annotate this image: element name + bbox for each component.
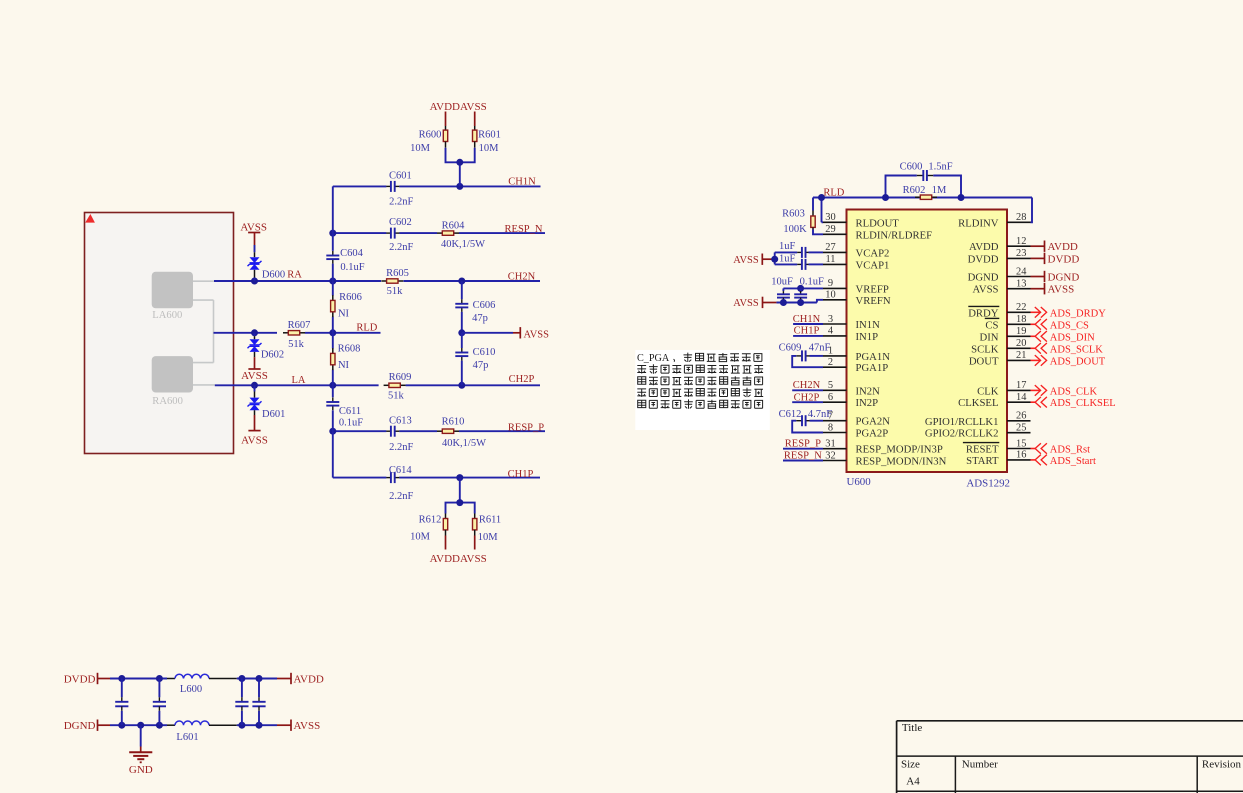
wire net RESP_N <box>333 232 387 234</box>
power lead AVSS bottom <box>474 536 476 550</box>
svg-text:GPIO1/RCLLK1: GPIO1/RCLLK1 <box>925 416 999 428</box>
svg-text:C600: C600 <box>900 161 923 172</box>
junction dvdd-c2 <box>156 675 163 682</box>
U600 pin 6 IN2P <box>823 392 878 409</box>
svg-text:23: 23 <box>1016 248 1026 259</box>
junction vref-c1 bot <box>780 299 787 306</box>
svg-text:1uF: 1uF <box>779 241 796 252</box>
svg-text:ADS_Rst: ADS_Rst <box>1050 445 1090 456</box>
wire net RESP_P <box>333 430 387 432</box>
svg-text:6: 6 <box>828 392 833 403</box>
junction LA-bus <box>329 382 336 389</box>
svg-text:0.1uF: 0.1uF <box>340 262 364 273</box>
wire RA600 pin 2 <box>193 384 215 386</box>
svg-text:PGA1N: PGA1N <box>856 351 891 363</box>
wire D600 top <box>254 245 256 252</box>
svg-text:RLD: RLD <box>823 187 844 198</box>
diode D602 <box>254 333 256 336</box>
resistor R600 <box>445 126 447 130</box>
svg-text:CH2P: CH2P <box>509 374 535 385</box>
junction R600-R601 <box>456 159 463 166</box>
U600 pin 12 AVDD <box>969 236 1031 253</box>
wire CH2N at IC <box>792 389 823 391</box>
junction CH2P-C610 <box>458 382 465 389</box>
wire C612 to pins <box>810 420 824 422</box>
svg-text:DGND: DGND <box>1048 272 1080 284</box>
power lead AVSS filter <box>277 724 291 726</box>
svg-text:AVSS: AVSS <box>524 329 550 340</box>
svg-text:C610: C610 <box>473 347 496 358</box>
svg-text:VREFP: VREFP <box>856 283 889 295</box>
svg-text:DGND: DGND <box>968 272 999 284</box>
junction avdd-c4 <box>256 675 263 682</box>
svg-text:1.5nF: 1.5nF <box>928 161 952 172</box>
junction RLD-C600-left <box>882 194 889 201</box>
title block frame <box>897 721 1243 793</box>
power port AVSS below D602 <box>248 368 260 370</box>
capacitor C-vref 0.1uF <box>800 291 802 294</box>
U600 pin 14 CLKSEL <box>958 392 1030 409</box>
U600 pin 17 CLK <box>977 380 1030 397</box>
svg-text:R612: R612 <box>419 515 442 526</box>
electrode pad RA600 <box>152 356 193 392</box>
diode D600 <box>254 252 256 257</box>
svg-text:D600: D600 <box>262 270 285 281</box>
svg-text:C614: C614 <box>389 465 413 476</box>
svg-text:1uF: 1uF <box>779 254 796 265</box>
svg-text:C609: C609 <box>779 343 802 354</box>
svg-text:A4: A4 <box>906 776 920 788</box>
resistor R604 <box>437 232 442 234</box>
wire GND stem <box>140 725 142 746</box>
capacitor C606 <box>461 299 463 304</box>
resistor R606 <box>332 295 334 300</box>
power port DVDD pin side <box>1031 253 1080 266</box>
wire R600/R601 join <box>446 148 475 163</box>
svg-text:VCAP1: VCAP1 <box>856 259 890 271</box>
svg-text:2: 2 <box>828 357 833 368</box>
diode D601 <box>254 385 256 391</box>
svg-text:C606: C606 <box>473 300 496 311</box>
svg-text:AVSS: AVSS <box>294 720 321 732</box>
svg-text:RESP_P: RESP_P <box>785 439 821 450</box>
resistor R607 <box>283 332 288 334</box>
junction RA-bus <box>329 278 336 285</box>
svg-text:C612: C612 <box>779 409 802 420</box>
junction RESP_N-bus <box>329 230 336 237</box>
svg-text:RA600: RA600 <box>152 396 183 407</box>
svg-text:ADS1292: ADS1292 <box>966 478 1010 490</box>
power port AVSS below D601 <box>248 430 260 432</box>
svg-text:ADS_CLK: ADS_CLK <box>1050 386 1098 397</box>
svg-text:13: 13 <box>1016 279 1026 290</box>
wire C609 to pins <box>810 355 824 357</box>
no-ERC marker triangle <box>85 214 95 223</box>
svg-text:DIN: DIN <box>980 331 999 343</box>
svg-text:IN2N: IN2N <box>856 385 881 397</box>
svg-text:AVSS: AVSS <box>460 553 487 565</box>
svg-text:1M: 1M <box>932 185 947 196</box>
svg-text:AVSS: AVSS <box>973 284 999 296</box>
inductor L601 <box>175 721 209 725</box>
U600 pin 27 VCAP2 <box>823 242 889 259</box>
inductor L600 <box>175 674 209 678</box>
wire pin28 drop <box>1031 198 1033 223</box>
U600 pin 4 IN1P <box>823 326 878 343</box>
wire net CH1P <box>333 477 387 479</box>
U600 pin 15 RESET <box>963 438 1031 455</box>
svg-text:SCLK: SCLK <box>971 343 999 355</box>
resistor R605 <box>381 280 386 282</box>
junction RLD-pin30 <box>818 194 825 201</box>
note text box C_PGA placement requirement <box>635 350 770 430</box>
wire CH2N to C606 <box>461 281 463 299</box>
power port AVSS pin side <box>1031 283 1075 296</box>
wire net LA <box>215 384 379 386</box>
wire C600 loop <box>886 176 917 198</box>
svg-text:0.1uF: 0.1uF <box>800 276 824 287</box>
junction LA-D601 <box>251 382 258 389</box>
svg-text:IN2P: IN2P <box>856 397 879 409</box>
svg-text:21: 21 <box>1016 350 1026 361</box>
wire bus vertical <box>332 186 334 251</box>
junction dgnd-c2 <box>156 722 163 729</box>
svg-text:20: 20 <box>1016 338 1026 349</box>
svg-text:START: START <box>966 455 999 467</box>
junction RLD-C600-right <box>958 194 965 201</box>
capacitor C609 <box>796 355 802 357</box>
capacitor C612 <box>796 420 802 422</box>
svg-text:10: 10 <box>825 290 835 301</box>
capacitor filter C3 <box>235 679 248 726</box>
svg-text:ADS_DOUT: ADS_DOUT <box>1050 356 1106 367</box>
capacitor C614 <box>386 477 391 479</box>
svg-text:RA: RA <box>287 270 302 281</box>
junction avdd-c3 <box>238 675 245 682</box>
svg-text:CLKSEL: CLKSEL <box>958 397 998 409</box>
svg-text:19: 19 <box>1016 326 1026 337</box>
sheet entry ADS_DOUT <box>1031 355 1106 367</box>
power port AVSS filter <box>290 720 292 731</box>
svg-text:RLDINV: RLDINV <box>958 217 999 229</box>
svg-text:16: 16 <box>1016 450 1026 461</box>
capacitor C601 <box>386 185 391 187</box>
svg-text:2.2nF: 2.2nF <box>389 442 413 453</box>
svg-text:4: 4 <box>828 326 834 337</box>
U600 pin 18 CS <box>985 314 1031 331</box>
svg-text:RESP_P: RESP_P <box>508 423 544 434</box>
capacitor C611 <box>332 398 334 403</box>
svg-text:9: 9 <box>828 278 833 289</box>
wire C606 to AVSS node <box>461 312 463 333</box>
U600 pin 29 RLDIN/RLDREF <box>823 224 932 241</box>
svg-text:AVDD: AVDD <box>1048 241 1078 253</box>
svg-text:LA600: LA600 <box>152 310 182 321</box>
resistor R612 <box>445 514 447 519</box>
U600 pin 20 SCLK <box>971 338 1030 355</box>
svg-text:0.1uF: 0.1uF <box>339 417 363 428</box>
junction CH2N-C606 <box>458 278 465 285</box>
wire C610 to CH2P <box>461 361 463 386</box>
junction dgnd-gnd <box>137 722 144 729</box>
svg-text:100K: 100K <box>783 224 807 235</box>
svg-text:IN1P: IN1P <box>856 331 879 343</box>
svg-text:29: 29 <box>825 224 835 235</box>
capacitor C602 <box>386 232 391 234</box>
svg-text:32: 32 <box>825 450 835 461</box>
wire DVDD rail <box>110 678 167 680</box>
capacitor C-vcap2 1uF <box>797 251 802 253</box>
svg-text:26: 26 <box>1016 411 1026 422</box>
svg-text:GPIO2/RCLLK2: GPIO2/RCLLK2 <box>925 428 999 440</box>
wire CH1P to R612/R611 <box>459 478 461 503</box>
sheet entry ADS_Rst <box>1031 443 1091 455</box>
power lead D602-AVSS <box>254 357 256 369</box>
wire AVSS stub mid <box>462 332 513 334</box>
junction avss-c3 <box>238 722 245 729</box>
svg-text:1: 1 <box>828 346 833 357</box>
svg-text:RESP_N: RESP_N <box>784 450 822 461</box>
svg-text:RLDIN/RLDREF: RLDIN/RLDREF <box>856 229 933 241</box>
svg-text:AVDD: AVDD <box>969 241 999 253</box>
svg-text:ADS_CLKSEL: ADS_CLKSEL <box>1050 398 1116 409</box>
sheet entry ADS_SCLK <box>1031 343 1104 355</box>
U600 pin 7 PGA2N <box>823 411 890 428</box>
wire LA600 pin 2 <box>193 299 214 301</box>
U600 pin 26 GPIO1/RCLLK1 <box>925 411 1031 428</box>
svg-text:C613: C613 <box>389 415 412 426</box>
junction AVSS mid <box>458 329 465 336</box>
svg-text:R611: R611 <box>479 514 501 525</box>
svg-text:Title: Title <box>902 722 923 734</box>
sheet entry ADS_DRDY <box>1031 307 1107 319</box>
capacitor filter C2 <box>153 679 166 726</box>
svg-text:DVDD: DVDD <box>968 253 999 265</box>
svg-text:10M: 10M <box>410 532 431 543</box>
power lead D601-AVSS <box>254 415 256 431</box>
wire vref bottom <box>776 302 817 304</box>
U600 pin 3 IN1N <box>823 314 880 331</box>
svg-text:IN1N: IN1N <box>856 319 881 331</box>
svg-text:R605: R605 <box>386 268 409 279</box>
wire vcap node <box>772 258 775 260</box>
power port AVSS mid <box>519 327 521 338</box>
U600 pin 21 DOUT <box>969 350 1031 367</box>
wire net RA <box>214 280 381 282</box>
svg-text:C601: C601 <box>389 170 412 181</box>
resistor R609 <box>384 384 389 386</box>
svg-text:15: 15 <box>1016 438 1026 449</box>
U600 pin 28 RLDINV <box>958 212 1030 229</box>
power port DGND pin side <box>1031 271 1080 284</box>
wire net RLD <box>214 332 278 334</box>
power lead AVDD <box>277 678 291 680</box>
svg-text:ADS_DRDY: ADS_DRDY <box>1050 308 1106 319</box>
power lead AVSS-D600 <box>254 232 256 245</box>
U600 pin 2 PGA1P <box>823 357 888 374</box>
wire CH1N at IC <box>793 323 823 325</box>
svg-text:ADS_CS: ADS_CS <box>1050 320 1089 331</box>
svg-text:C_PGA: C_PGA <box>637 353 670 364</box>
svg-text:10M: 10M <box>410 143 431 154</box>
svg-text:40K,1/5W: 40K,1/5W <box>442 438 486 449</box>
svg-text:CH2N: CH2N <box>793 380 821 391</box>
svg-text:51k: 51k <box>288 339 305 350</box>
electrode pad LA600 <box>152 272 193 309</box>
junction CH1P <box>456 474 463 481</box>
power lead AVDD bottom <box>445 536 447 550</box>
power port AVDD filter <box>290 673 292 684</box>
svg-text:D602: D602 <box>261 350 284 361</box>
svg-text:CH1N: CH1N <box>508 176 536 187</box>
U600 pin 24 DGND <box>968 266 1031 283</box>
svg-text:12: 12 <box>1016 236 1026 247</box>
svg-text:CH2N: CH2N <box>508 271 536 282</box>
svg-text:DRDY: DRDY <box>968 307 999 319</box>
svg-text:40K,1/5W: 40K,1/5W <box>441 239 485 250</box>
wire RA600 pin 1 <box>193 362 214 364</box>
resistor R603 <box>812 211 814 217</box>
svg-text:AVSS: AVSS <box>240 221 267 233</box>
svg-text:18: 18 <box>1016 314 1026 325</box>
svg-text:17: 17 <box>1016 380 1026 391</box>
sheet entry ADS_CLKSEL <box>1031 397 1116 409</box>
svg-text:25: 25 <box>1016 423 1026 434</box>
svg-text:VREFN: VREFN <box>856 295 891 307</box>
svg-text:47p: 47p <box>472 313 488 324</box>
svg-text:AVSS: AVSS <box>241 434 268 446</box>
svg-text:ADS_Start: ADS_Start <box>1050 456 1096 467</box>
svg-text:PGA2P: PGA2P <box>856 428 889 440</box>
svg-text:51k: 51k <box>388 390 405 401</box>
capacitor C-vcap1 1uF <box>797 263 802 265</box>
sheet entry ADS_CLK <box>1031 385 1098 397</box>
svg-text:10uF: 10uF <box>771 276 793 287</box>
svg-text:Revision: Revision <box>1202 759 1242 771</box>
svg-text:RLDOUT: RLDOUT <box>856 217 900 229</box>
wire AVSS node to C610 <box>461 333 463 348</box>
svg-text:LA: LA <box>292 375 306 386</box>
junction CH1N <box>456 183 463 190</box>
wire RESP_P at IC <box>783 448 823 450</box>
capacitor filter C4 <box>252 679 265 726</box>
svg-text:U600: U600 <box>847 476 872 488</box>
svg-text:AVDD: AVDD <box>430 553 460 565</box>
svg-text:CH2P: CH2P <box>794 393 820 404</box>
svg-text:DGND: DGND <box>64 720 96 732</box>
svg-text:10M: 10M <box>479 143 500 154</box>
svg-text:AVSS: AVSS <box>460 101 487 113</box>
U600 pin 5 IN2N <box>823 380 880 397</box>
svg-text:Number: Number <box>962 759 998 771</box>
junction RESP_P-bus <box>329 428 336 435</box>
capacitor C-vref 10uF <box>782 291 784 294</box>
ground GND symbol <box>129 747 152 763</box>
svg-text:DVDD: DVDD <box>64 674 96 686</box>
svg-text:47p: 47p <box>473 360 489 371</box>
capacitor C613 <box>386 430 391 432</box>
svg-text:RESP_N: RESP_N <box>505 224 543 235</box>
svg-text:CH1N: CH1N <box>793 314 821 325</box>
resistor R601 <box>474 126 476 130</box>
svg-text:R604: R604 <box>442 220 466 231</box>
svg-text:R606: R606 <box>339 292 362 303</box>
op-amp U600 ADS1292 body <box>847 210 1008 473</box>
wire net CH1N <box>333 185 387 187</box>
svg-text:24: 24 <box>1016 266 1027 277</box>
U600 pin 11 VCAP1 <box>823 254 889 271</box>
svg-text:ADS_DIN: ADS_DIN <box>1050 332 1095 343</box>
svg-text:8: 8 <box>828 422 833 433</box>
power lead AVSS mid <box>513 332 520 334</box>
resistor R608 <box>332 348 334 353</box>
svg-text:VCAP2: VCAP2 <box>856 247 890 259</box>
junction dgnd-c1 <box>118 722 125 729</box>
svg-text:L600: L600 <box>180 684 202 695</box>
svg-text:31: 31 <box>825 439 835 450</box>
svg-text:10M: 10M <box>478 532 499 543</box>
svg-text:R603: R603 <box>782 208 805 219</box>
junction avss-c4 <box>256 722 263 729</box>
U600 pin 8 PGA2P <box>823 422 888 439</box>
wire CH1P at IC <box>793 335 823 337</box>
svg-text:RESP_MODP/IN3P: RESP_MODP/IN3P <box>856 444 943 456</box>
svg-text:D601: D601 <box>262 409 285 420</box>
svg-text:CLK: CLK <box>977 385 999 397</box>
svg-text:C611: C611 <box>339 406 361 417</box>
U600 pin 32 RESP_MODN/IN3N <box>823 450 947 467</box>
resistor R610 <box>437 430 442 432</box>
wire vref top <box>783 287 823 289</box>
U600 pin 22 DRDY <box>968 302 1030 319</box>
connector box outline <box>85 213 234 454</box>
junction vref-c2 bot <box>797 299 804 306</box>
power port AVDD pin side <box>1031 241 1078 254</box>
U600 pin 1 PGA1N <box>823 346 890 363</box>
capacitor C604 <box>332 251 334 256</box>
U600 pin 30 RLDOUT <box>823 212 899 229</box>
junction R612-R611 <box>456 499 463 506</box>
svg-text:C602: C602 <box>389 217 412 228</box>
power lead AVSS vcap <box>762 258 772 260</box>
svg-text:R610: R610 <box>442 417 465 428</box>
U600 pin 31 RESP_MODP/IN3P <box>823 439 943 456</box>
svg-text:AVDD: AVDD <box>430 101 460 113</box>
U600 pin 25 GPIO2/RCLLK2 <box>925 423 1031 440</box>
svg-text:GND: GND <box>129 764 153 776</box>
svg-text:30: 30 <box>825 212 835 223</box>
svg-text:R607: R607 <box>288 320 311 331</box>
wire vertical connector link <box>213 300 215 363</box>
svg-text:7: 7 <box>828 411 833 422</box>
wire DGND rail <box>110 724 167 726</box>
svg-text:Size: Size <box>901 759 920 771</box>
sheet entry ADS_Start <box>1031 455 1096 467</box>
svg-text:R602: R602 <box>903 185 926 196</box>
wire CH2P at IC <box>792 401 823 403</box>
svg-text:DOUT: DOUT <box>969 355 999 367</box>
svg-text:AVSS: AVSS <box>733 298 759 309</box>
svg-text:DVDD: DVDD <box>1048 253 1080 265</box>
svg-text:ADS_SCLK: ADS_SCLK <box>1050 344 1104 355</box>
junction RA-D600 <box>251 278 258 285</box>
svg-text:NI: NI <box>338 308 350 319</box>
svg-text:28: 28 <box>1016 212 1026 223</box>
capacitor C600 <box>917 175 924 177</box>
capacitor filter C1 <box>115 679 128 726</box>
wire AVDD rail <box>237 678 277 680</box>
U600 pin 23 DVDD <box>968 248 1031 265</box>
